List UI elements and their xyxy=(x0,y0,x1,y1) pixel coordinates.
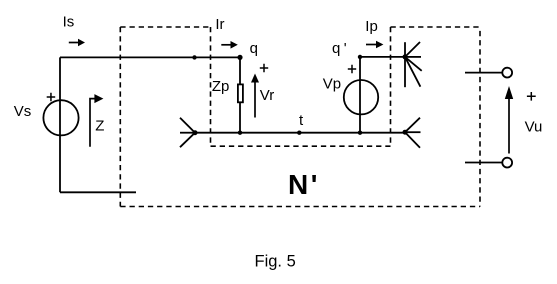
svg-text:Zp: Zp xyxy=(212,78,230,95)
svg-text:Ir: Ir xyxy=(215,16,224,33)
svg-text:Vu: Vu xyxy=(525,118,543,135)
svg-text:': ' xyxy=(344,40,347,57)
svg-text:': ' xyxy=(311,169,318,200)
svg-text:Fig. 5: Fig. 5 xyxy=(255,253,296,271)
svg-text:N: N xyxy=(288,169,308,200)
svg-text:Z: Z xyxy=(95,118,104,135)
svg-text:q: q xyxy=(332,40,340,57)
svg-text:Vs: Vs xyxy=(14,103,32,120)
svg-text:Is: Is xyxy=(63,13,75,30)
svg-text:Vp: Vp xyxy=(323,75,341,92)
svg-text:Ip: Ip xyxy=(365,18,378,35)
svg-text:Vr: Vr xyxy=(260,87,274,104)
svg-text:q: q xyxy=(250,40,258,57)
